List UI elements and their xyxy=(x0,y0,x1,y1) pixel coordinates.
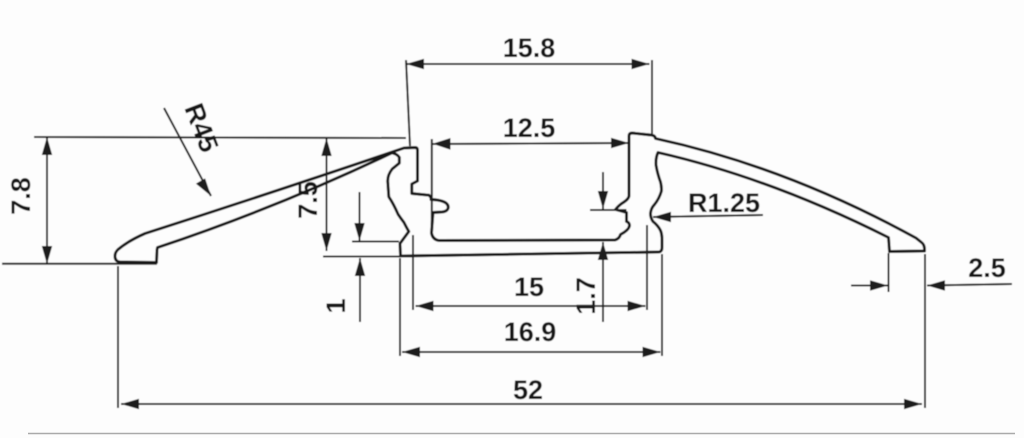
svg-text:R1.25: R1.25 xyxy=(688,188,760,218)
svg-text:1.7: 1.7 xyxy=(571,277,601,315)
profile outline: aluminum extrusion cross-section xyxy=(115,133,925,263)
svg-text:16.9: 16.9 xyxy=(504,317,557,347)
svg-text:2.5: 2.5 xyxy=(968,253,1006,283)
svg-text:15: 15 xyxy=(514,272,544,302)
dimension 12.5 xyxy=(432,138,629,231)
dimension 52 xyxy=(118,254,925,409)
svg-text:7.8: 7.8 xyxy=(6,177,36,215)
dimension 2.5 xyxy=(851,253,1012,292)
bottom gray scan line xyxy=(28,433,1015,435)
dimension 16.9 xyxy=(400,254,662,357)
dimension 1 xyxy=(352,192,399,322)
svg-text:1: 1 xyxy=(321,298,351,313)
svg-text:52: 52 xyxy=(513,375,543,405)
dimension 7.5 xyxy=(321,137,412,257)
dimension 7.8 (left) xyxy=(2,137,406,264)
dimension 15 xyxy=(413,225,647,311)
R1.25 leader xyxy=(653,212,763,222)
dimension 1.7 xyxy=(590,172,627,322)
R45 leader xyxy=(164,108,211,196)
svg-text:7.5: 7.5 xyxy=(293,181,323,219)
dimension 15.8 xyxy=(406,59,652,146)
svg-text:15.8: 15.8 xyxy=(503,33,556,63)
svg-text:12.5: 12.5 xyxy=(503,113,556,143)
